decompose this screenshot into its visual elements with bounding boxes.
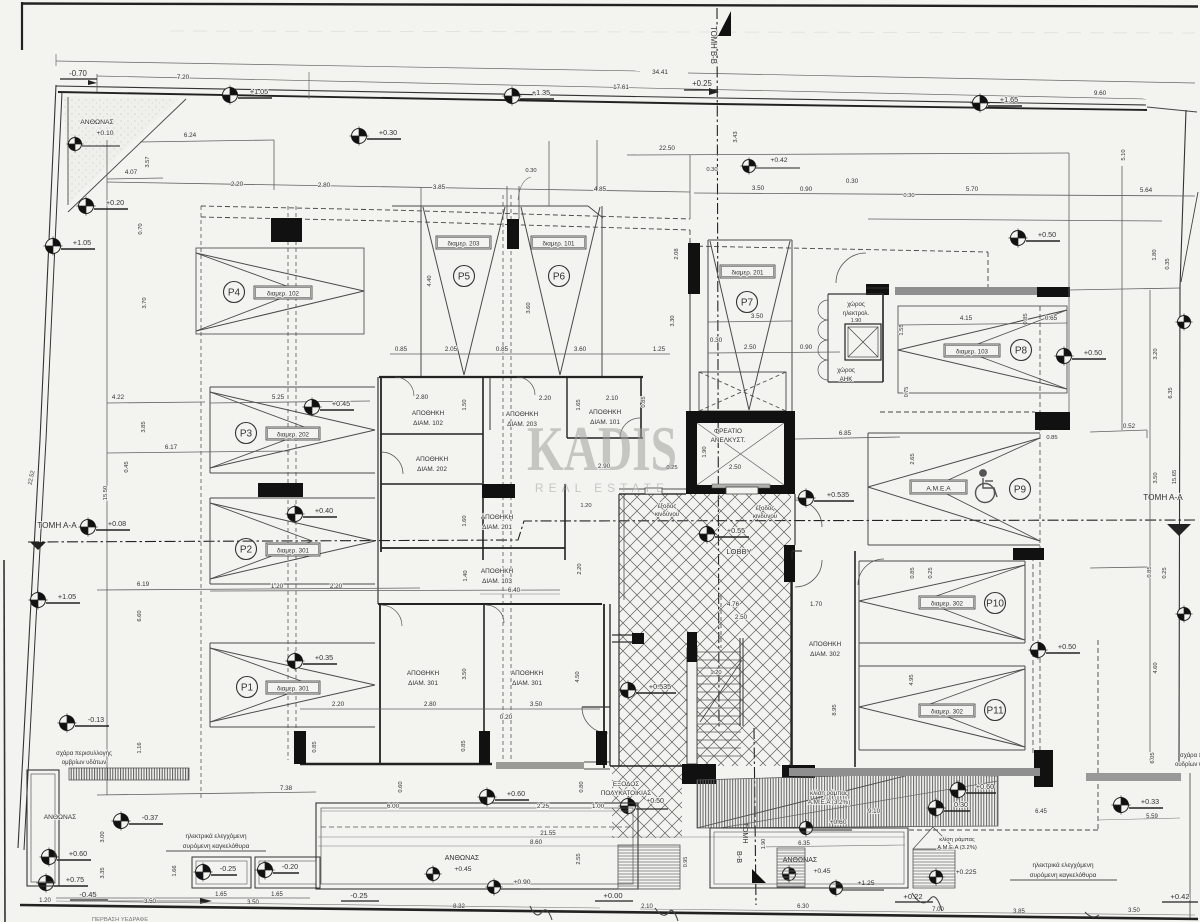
ramp diagonals — [697, 776, 905, 828]
P5 P6 bottom dim row — [390, 353, 670, 355]
parking bay P7 outline — [707, 240, 709, 411]
parking bay P4 tag box — [254, 286, 312, 299]
storage wall x490 — [489, 377, 491, 430]
svg-text:3.50: 3.50 — [462, 668, 468, 679]
section B-B top arrow — [718, 11, 731, 36]
storage wall between 102 and 202 — [381, 433, 483, 435]
svg-text:+0.50: +0.50 — [1058, 642, 1076, 651]
svg-text:3.85: 3.85 — [1013, 909, 1025, 915]
elevator door leaf — [726, 487, 758, 494]
lobby door arc east — [795, 500, 822, 527]
storage 301 door arc second — [486, 605, 504, 623]
boundary corner diagonal top-left — [68, 99, 186, 212]
svg-text:0.95: 0.95 — [683, 857, 689, 868]
storage 101 door arc — [620, 418, 640, 438]
vertical dim line x107 — [106, 140, 108, 795]
svg-text:ομβρίων υδάτων: ομβρίων υδάτων — [62, 759, 106, 766]
stair flight white strip — [687, 648, 697, 764]
level marker +0.535 — [619, 681, 638, 700]
level marker -0.37 — [112, 812, 131, 831]
svg-text:22.50: 22.50 — [659, 145, 675, 152]
level marker +0.33 — [1112, 796, 1131, 815]
level marker -0.20 — [256, 861, 275, 880]
svg-text:2.65: 2.65 — [910, 453, 916, 464]
level marker right boundary 1 — [1176, 314, 1193, 331]
svg-text:0.35: 0.35 — [1165, 258, 1171, 269]
svg-text:ΔΙΑΜ. 103: ΔΙΑΜ. 103 — [482, 578, 512, 585]
svg-text:P1: P1 — [241, 683, 254, 694]
svg-text:ΤΟΜΗ Α-Α: ΤΟΜΗ Α-Α — [1143, 493, 1183, 502]
svg-text:P10: P10 — [986, 599, 1004, 610]
gray retaining wall below P11 — [789, 768, 1040, 776]
dashed vertical axis center pair — [502, 195, 504, 764]
page border left lower — [4, 560, 5, 922]
level +1.25 — [828, 880, 845, 897]
svg-text:6.60: 6.60 — [137, 610, 143, 621]
svg-text:+0.40: +0.40 — [315, 506, 333, 515]
svg-text:ΑΠΟΘΗΚΗ: ΑΠΟΘΗΚΗ — [481, 568, 514, 575]
storage 302 room walls — [791, 551, 793, 767]
svg-text:ΑΝΕΛΚΥΣΤ.: ΑΝΕΛΚΥΣΤ. — [711, 437, 746, 444]
plot boundary right corner diagonal — [1181, 192, 1198, 282]
svg-text:-0.37: -0.37 — [142, 813, 158, 822]
svg-text:6.17: 6.17 — [165, 444, 178, 451]
lobby hatch region — [619, 494, 791, 766]
storage wall y484 — [381, 483, 482, 485]
svg-text:0.85: 0.85 — [312, 741, 318, 752]
svg-text:7.20: 7.20 — [177, 74, 190, 81]
svg-text:0.30: 0.30 — [846, 178, 859, 185]
svg-text:+1.25: +1.25 — [857, 880, 874, 887]
dim 4.22 — [107, 402, 205, 403]
svg-text:3.85: 3.85 — [433, 184, 446, 191]
svg-text:4.60: 4.60 — [1153, 662, 1159, 673]
right page edge line bottom — [1189, 773, 1191, 918]
level marker +0.60 — [949, 781, 968, 800]
black column stairs south — [682, 764, 716, 784]
svg-text:διαμερ. 201: διαμερ. 201 — [731, 269, 764, 276]
svg-text:+0.08: +0.08 — [108, 519, 126, 528]
svg-text:ΔΙΑΜ. 202: ΔΙΑΜ. 202 — [417, 466, 447, 473]
parking bay P3 circle — [236, 423, 257, 444]
vertical tick x97 — [96, 74, 98, 92]
gray wall bar above P8 — [895, 287, 1037, 295]
svg-text:+0.60: +0.60 — [829, 819, 846, 826]
svg-text:3.50: 3.50 — [751, 313, 764, 320]
svg-text:διαμερ. 101: διαμερ. 101 — [542, 240, 575, 247]
level marker +0.50 — [1009, 229, 1028, 248]
svg-text:1.16: 1.16 — [137, 742, 143, 753]
svg-text:2.80: 2.80 — [424, 701, 437, 708]
svg-text:έξοδος: έξοδος — [658, 503, 677, 510]
svg-text:1.20: 1.20 — [580, 503, 591, 509]
svg-text:6.85: 6.85 — [839, 430, 852, 437]
level marker +0.50 — [1029, 641, 1048, 660]
svg-text:6.19: 6.19 — [137, 581, 150, 588]
svg-text:+0.75: +0.75 — [66, 875, 84, 884]
parking bay P6 outline — [601, 206, 603, 376]
svg-text:2.20: 2.20 — [231, 181, 244, 188]
parking bay P5 outline — [420, 206, 422, 376]
svg-text:1.40: 1.40 — [463, 570, 469, 581]
svg-text:ΤΟΜΗ Β-Β: ΤΟΜΗ Β-Β — [709, 26, 718, 64]
svg-text:χώρος: χώρος — [837, 367, 855, 374]
plot boundary top extension to page edge — [1147, 107, 1197, 112]
svg-text:+1.65: +1.65 — [1000, 95, 1018, 104]
svg-text:0.85: 0.85 — [910, 567, 916, 578]
svg-text:P11: P11 — [986, 706, 1003, 717]
svg-text:4.50: 4.50 — [575, 671, 581, 682]
svg-text:ΑΗΚ: ΑΗΚ — [840, 376, 854, 383]
parking bay P2 outline — [210, 497, 375, 499]
svg-text:2.90: 2.90 — [598, 463, 611, 470]
svg-text:ΠΟΛΥΚΑΤΟΙΚΙΑΣ: ΠΟΛΥΚΑΤΟΙΚΙΑΣ — [601, 790, 651, 797]
svg-text:διαμερ. 202: διαμερ. 202 — [277, 431, 310, 438]
svg-text:2.55: 2.55 — [576, 853, 582, 864]
svg-text:+0.60: +0.60 — [69, 849, 87, 858]
svg-text:2.50: 2.50 — [729, 464, 742, 471]
lobby door leaf left — [645, 488, 662, 494]
svg-text:0.85: 0.85 — [1046, 435, 1057, 441]
storage 301 door arc — [381, 605, 402, 626]
parking bay P11 tag box — [919, 704, 975, 717]
svg-text:χώρος: χώρος — [847, 301, 865, 308]
svg-text:3.60: 3.60 — [574, 346, 587, 353]
level marker +1.05 — [221, 86, 240, 105]
stair flight black top — [687, 632, 697, 662]
parking bay P4 circle — [224, 282, 245, 303]
level marker -0.13 — [58, 714, 77, 733]
parking bay P11 outline — [859, 665, 1025, 667]
P2 dims — [210, 590, 560, 591]
svg-text:+0.535: +0.535 — [827, 490, 849, 499]
svg-text:0.85: 0.85 — [461, 740, 467, 751]
parking bay P5 wedge V — [423, 207, 464, 375]
svg-text:1.00: 1.00 — [592, 803, 605, 810]
svg-text:+0.42: +0.42 — [770, 157, 787, 164]
svg-text:Α.Μ.Ε.Α: Α.Μ.Ε.Α — [926, 485, 951, 492]
parking bay P3 outline — [210, 386, 375, 388]
storage 301 west wall — [379, 604, 381, 763]
lobby east wall lower — [790, 582, 792, 766]
svg-text:2.08: 2.08 — [674, 248, 680, 259]
level marker +0.60 — [40, 848, 59, 867]
svg-text:1.20: 1.20 — [710, 670, 721, 676]
level marker +0.60 — [478, 788, 497, 807]
plot boundary right line — [1179, 110, 1186, 765]
svg-text:2.50: 2.50 — [744, 344, 757, 351]
svg-text:2.80: 2.80 — [416, 394, 429, 401]
svg-text:ΑΝΘΩΝΑΣ: ΑΝΘΩΝΑΣ — [445, 855, 480, 862]
svg-text:ΑΠΟΘΗΚΗ: ΑΠΟΘΗΚΗ — [511, 670, 544, 677]
svg-text:2.50: 2.50 — [735, 614, 748, 621]
svg-text:+0.45: +0.45 — [813, 868, 830, 875]
svg-text:διαμερ. 301: διαμερ. 301 — [277, 547, 310, 554]
svg-text:1.90: 1.90 — [851, 318, 862, 324]
level marker +0.35 — [286, 652, 305, 671]
page border top — [22, 4, 1198, 7]
dashed X box above elevator — [699, 372, 786, 411]
page border bottom secondary — [56, 897, 310, 899]
svg-text:1.65: 1.65 — [271, 892, 283, 898]
parking bay P4 wedge — [196, 253, 364, 291]
dim 6.24 — [140, 140, 274, 142]
svg-text:P5: P5 — [458, 272, 471, 283]
svg-text:0.25: 0.25 — [1162, 567, 1168, 578]
storage 102 door arc — [395, 377, 414, 396]
svg-text:1.90: 1.90 — [761, 839, 767, 850]
storage 202 door arc — [381, 452, 403, 474]
svg-text:6.05: 6.05 — [1150, 752, 1156, 763]
svg-text:1.25: 1.25 — [653, 346, 666, 353]
parking bay P3 tag box — [266, 427, 320, 440]
svg-text:1.65: 1.65 — [576, 399, 582, 410]
svg-text:1.80: 1.80 — [1152, 249, 1158, 260]
level marker +1.35 — [503, 87, 522, 106]
svg-text:21.55: 21.55 — [540, 830, 556, 837]
parking bay P5 tag box — [436, 236, 491, 249]
dim 6.19 row — [97, 588, 420, 590]
parking bay P7 circle — [737, 292, 758, 313]
svg-text:έξοδος: έξοδος — [756, 505, 775, 512]
dim line y220 right — [868, 219, 1162, 221]
bottom dim line — [56, 901, 600, 908]
parking bay P9 wedge — [868, 438, 1040, 487]
plot boundary left inner line — [24, 92, 62, 850]
dashed vertical right parking edge — [1039, 306, 1041, 755]
level marker +0.50 — [1055, 347, 1074, 366]
svg-text:KADIS: KADIS — [527, 414, 677, 484]
column bottom left — [294, 731, 306, 764]
svg-text:+0.45: +0.45 — [332, 399, 350, 408]
storage block top wall — [379, 376, 643, 378]
column top left — [271, 218, 302, 242]
parking bay P8 wedge — [898, 310, 1067, 350]
svg-text:8.32: 8.32 — [453, 904, 465, 910]
svg-text:0.85: 0.85 — [641, 396, 647, 407]
column mid left wide — [258, 483, 303, 497]
dim right row y567 — [1090, 567, 1147, 568]
planter level +0.90 — [486, 879, 503, 896]
svg-text:0.90: 0.90 — [800, 344, 813, 351]
level marker -0.25 — [194, 863, 213, 882]
svg-text:ηλεκτρολ.: ηλεκτρολ. — [843, 310, 870, 317]
black column above P9 — [1035, 412, 1070, 430]
svg-text:+0.42: +0.42 — [1170, 892, 1189, 901]
svg-text:4.07: 4.07 — [125, 169, 138, 176]
dashed line above P8 — [880, 411, 1035, 413]
svg-text:0.85: 0.85 — [395, 346, 408, 353]
parking bay P11 wedge — [859, 669, 1025, 707]
svg-text:3.20: 3.20 — [1153, 348, 1159, 359]
dim 4.07 — [107, 178, 163, 179]
bottom hatch left of B-B — [618, 845, 680, 889]
electrical panel box — [845, 324, 881, 360]
stair hall west wall stubs — [609, 604, 611, 766]
boundary corner hatch triangle top-left — [64, 96, 178, 204]
level marker +0.20 — [77, 197, 96, 216]
parking bay P4 outline — [196, 248, 364, 334]
svg-text:ΔΙΑΜ. 301: ΔΙΑΜ. 301 — [408, 680, 438, 687]
storage room 201 east wall — [564, 484, 566, 560]
column top center — [507, 219, 519, 249]
section line A-A — [28, 520, 1195, 542]
svg-text:+0.50: +0.50 — [646, 798, 664, 805]
parking bay P8 outline — [898, 306, 1067, 393]
storage 301 rooms top wall — [378, 603, 602, 605]
storage 301 middle wall — [483, 604, 485, 731]
svg-text:8.60: 8.60 — [530, 839, 543, 846]
stair handrail — [739, 638, 741, 726]
svg-text:κλίση ράμπας: κλίση ράμπας — [810, 790, 848, 797]
vertical tick x549 — [548, 141, 550, 206]
parking bay P10 wedge — [859, 565, 1025, 601]
svg-text:1.90: 1.90 — [702, 446, 708, 457]
svg-text:P2: P2 — [240, 545, 253, 556]
svg-text:9.60: 9.60 — [1094, 90, 1107, 97]
svg-text:5.59: 5.59 — [1146, 814, 1158, 820]
svg-text:διαμερ. 302: διαμερ. 302 — [931, 600, 964, 607]
stair second rail vertical — [720, 596, 722, 648]
svg-text:ΦΡΕΑΤΙΟ: ΦΡΕΑΤΙΟ — [714, 428, 742, 435]
vertical dim line x1150 — [1149, 290, 1151, 762]
svg-text:-0.25: -0.25 — [350, 891, 367, 900]
section A-A left arrow — [30, 542, 46, 550]
parking bay P1 wedge — [210, 648, 375, 685]
lobby door arc east second — [795, 560, 822, 587]
black column right of gray bar — [1037, 287, 1070, 297]
lobby west wall — [618, 494, 620, 766]
parking bay P10 outline — [859, 560, 1025, 562]
vertical dim line x597 — [596, 140, 598, 190]
parking bay P7 wedge V — [710, 241, 749, 410]
elevator door sill — [712, 484, 770, 488]
level +0.50 exit — [619, 797, 638, 816]
svg-text:2.80: 2.80 — [318, 182, 331, 189]
storage 301 east wall — [603, 604, 605, 768]
svg-text:διαμερ. 203: διαμερ. 203 — [447, 240, 480, 247]
parking bay P9 AMEA tag box — [910, 480, 967, 494]
black column bottom right — [1034, 750, 1053, 787]
svg-text:ΑΠΟΘΗΚΗ: ΑΠΟΘΗΚΗ — [412, 410, 445, 417]
parking bay P5 circle — [454, 266, 475, 287]
svg-text:P3: P3 — [240, 429, 253, 440]
svg-text:0.85: 0.85 — [496, 346, 509, 353]
dim 6.17 — [107, 451, 290, 453]
svg-text:2.05: 2.05 — [445, 346, 458, 353]
svg-text:1.70: 1.70 — [810, 601, 823, 608]
svg-text:6.45: 6.45 — [1035, 809, 1047, 815]
dim row right y190 — [694, 193, 1195, 196]
svg-text:κινδύνου: κινδύνου — [753, 513, 778, 520]
parking bay P11 circle — [985, 700, 1006, 721]
signature squiggles — [530, 906, 552, 920]
svg-text:0.30: 0.30 — [525, 168, 536, 174]
parking bay P9 outline — [868, 432, 1040, 434]
level marker 0.30 — [927, 799, 946, 818]
svg-text:3.50: 3.50 — [530, 701, 543, 708]
planter inner dashed line — [321, 826, 633, 828]
dim right row y288 — [1069, 288, 1180, 290]
column stair west wall bottom — [596, 731, 607, 765]
wheelchair AMEA icon — [976, 470, 998, 503]
svg-text:-0.13: -0.13 — [88, 715, 104, 724]
svg-text:8.95: 8.95 — [832, 704, 838, 715]
planter bottom center — [316, 803, 638, 889]
electrical room accordion door arcs — [818, 300, 828, 320]
level +0.42 — [741, 158, 758, 175]
svg-text:+0.20: +0.20 — [106, 198, 124, 207]
svg-text:3.50: 3.50 — [247, 900, 259, 906]
planter box right of B-B — [710, 828, 908, 888]
svg-text:0.30: 0.30 — [706, 167, 717, 173]
svg-text:3.35: 3.35 — [100, 867, 106, 878]
svg-text:3.50: 3.50 — [1153, 472, 1159, 483]
svg-text:5.10: 5.10 — [1121, 149, 1127, 160]
lobby east wall black column segment — [784, 545, 795, 582]
svg-text:3.50: 3.50 — [1128, 908, 1140, 914]
svg-text:3.70: 3.70 — [142, 297, 148, 308]
svg-text:5.64: 5.64 — [1140, 187, 1153, 194]
bay east boundary wall — [377, 377, 379, 604]
storage wall x483 — [482, 377, 484, 560]
svg-text:ΔΙΑΜ. 302: ΔΙΑΜ. 302 — [810, 651, 840, 658]
svg-text:P6: P6 — [553, 272, 566, 283]
gray retaining wall right segment — [1086, 773, 1181, 781]
exit door lower left — [582, 706, 610, 708]
parking bay P8 circle — [1011, 340, 1032, 361]
dashed parking zone top right — [690, 230, 988, 252]
parking bay P10 tag box — [919, 596, 975, 609]
level marker +0.45 — [303, 398, 322, 417]
lobby hatch region lower left — [612, 766, 682, 838]
svg-text:P8: P8 — [1015, 346, 1028, 357]
svg-text:συρόμενη καγκελόθυρα: συρόμενη καγκελόθυρα — [1030, 871, 1097, 879]
elevator shaft walls — [686, 411, 795, 494]
svg-text:15.65: 15.65 — [1172, 470, 1178, 485]
svg-text:3.85: 3.85 — [141, 421, 147, 432]
drain grate left — [69, 768, 189, 780]
svg-text:0.30: 0.30 — [903, 193, 914, 199]
scan artifact dotted band — [170, 31, 1195, 33]
storage wall y548 — [381, 547, 565, 549]
svg-text:διαμερ. 103: διαμερ. 103 — [956, 348, 989, 355]
svg-text:2.20: 2.20 — [332, 701, 345, 708]
svg-text:1.50: 1.50 — [462, 399, 468, 410]
bay P10 P11 left edge line — [858, 561, 860, 750]
svg-text:1.20: 1.20 — [39, 898, 51, 904]
storage 301 dim row — [300, 708, 600, 710]
elevator right dim 6.85 — [795, 437, 900, 439]
dimension line 34.41 — [56, 61, 640, 71]
svg-text:P9: P9 — [1014, 485, 1027, 496]
vertical tick x421 — [420, 187, 422, 206]
level marker +1.65 — [971, 94, 990, 113]
level marker +1.05 — [44, 237, 63, 256]
svg-text:0.30: 0.30 — [954, 800, 968, 809]
svg-text:ΑΝΘΩΝΑΣ: ΑΝΘΩΝΑΣ — [80, 119, 113, 126]
svg-text:15.50: 15.50 — [103, 486, 109, 501]
svg-text:Α.Μ.Ε.Α (3.2%): Α.Μ.Ε.Α (3.2%) — [808, 799, 850, 806]
vertical dim line x1069 — [1068, 153, 1070, 412]
svg-text:5.70: 5.70 — [966, 186, 979, 193]
svg-text:3.50: 3.50 — [752, 185, 765, 192]
storage 302 black wall top — [784, 559, 794, 582]
svg-text:4.22: 4.22 — [112, 394, 125, 401]
svg-text:ηλεκτρικά ελεγχόμενη: ηλεκτρικά ελεγχόμενη — [185, 832, 247, 840]
svg-text:+0.30: +0.30 — [379, 128, 397, 137]
svg-text:0.25: 0.25 — [928, 567, 934, 578]
